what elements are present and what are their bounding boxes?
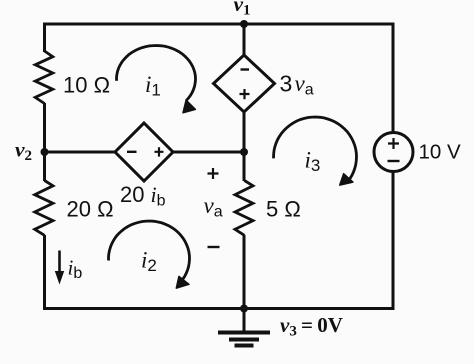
wire left bottom segment (43, 235, 46, 310)
plus sign of 20ib source (155, 147, 164, 156)
wire top rail (43, 23, 395, 26)
wire v2 to diamond (45, 151, 117, 154)
minus sign of 20ib source (127, 151, 137, 153)
resistor R=20 ohm (35, 181, 53, 236)
wire left middle segment (43, 103, 46, 181)
svg-text:20: 20 (120, 182, 144, 207)
branch current arrow ib (55, 251, 64, 285)
mesh current arrow i2 (109, 221, 190, 283)
plus sign of 10V source (388, 138, 399, 149)
wire right side bottom (392, 171, 395, 310)
minus of va branch (208, 246, 220, 248)
minus sign of 10V source (388, 160, 400, 162)
node v2 dot (41, 148, 49, 156)
node v1 dot (240, 20, 248, 28)
svg-text:10 Ω: 10 Ω (63, 73, 110, 98)
voltage source V=10V circle (374, 133, 413, 172)
node bottom dot (240, 305, 248, 313)
svg-text:10 V: 10 V (419, 141, 461, 164)
node middle dot (240, 148, 248, 156)
mesh current arrow i3 (274, 117, 357, 182)
resistor R=5 ohm (235, 181, 253, 236)
mesh current arrow i1 (117, 46, 196, 101)
wire bottom rail (43, 307, 395, 310)
wire middle upper-mid segment (243, 111, 246, 153)
svg-text:20 Ω: 20 Ω (67, 197, 114, 222)
wire left top segment (43, 23, 46, 53)
svg-text:v1: v1 (234, 0, 251, 19)
arrowhead of i3 (340, 174, 353, 185)
plus sign of 3va source (240, 89, 250, 99)
arrowhead of i2 (176, 276, 189, 288)
minus sign of 3va source (241, 68, 250, 70)
resistor R=10 ohm (35, 51, 53, 104)
wire right side top (392, 23, 395, 134)
arrowhead of i1 (183, 100, 195, 113)
dependent source 20ib diamond (115, 123, 173, 181)
svg-text:5 Ω: 5 Ω (266, 197, 301, 222)
dependent source 3va diamond (214, 55, 275, 112)
wire middle below node (243, 152, 246, 181)
plus of va branch (208, 168, 219, 179)
wire middle top segment (243, 24, 246, 56)
svg-text:3: 3 (280, 71, 293, 97)
wire diamond to middle node (172, 151, 244, 154)
ground symbol (218, 309, 270, 346)
wire middle bottom segment (243, 235, 246, 310)
